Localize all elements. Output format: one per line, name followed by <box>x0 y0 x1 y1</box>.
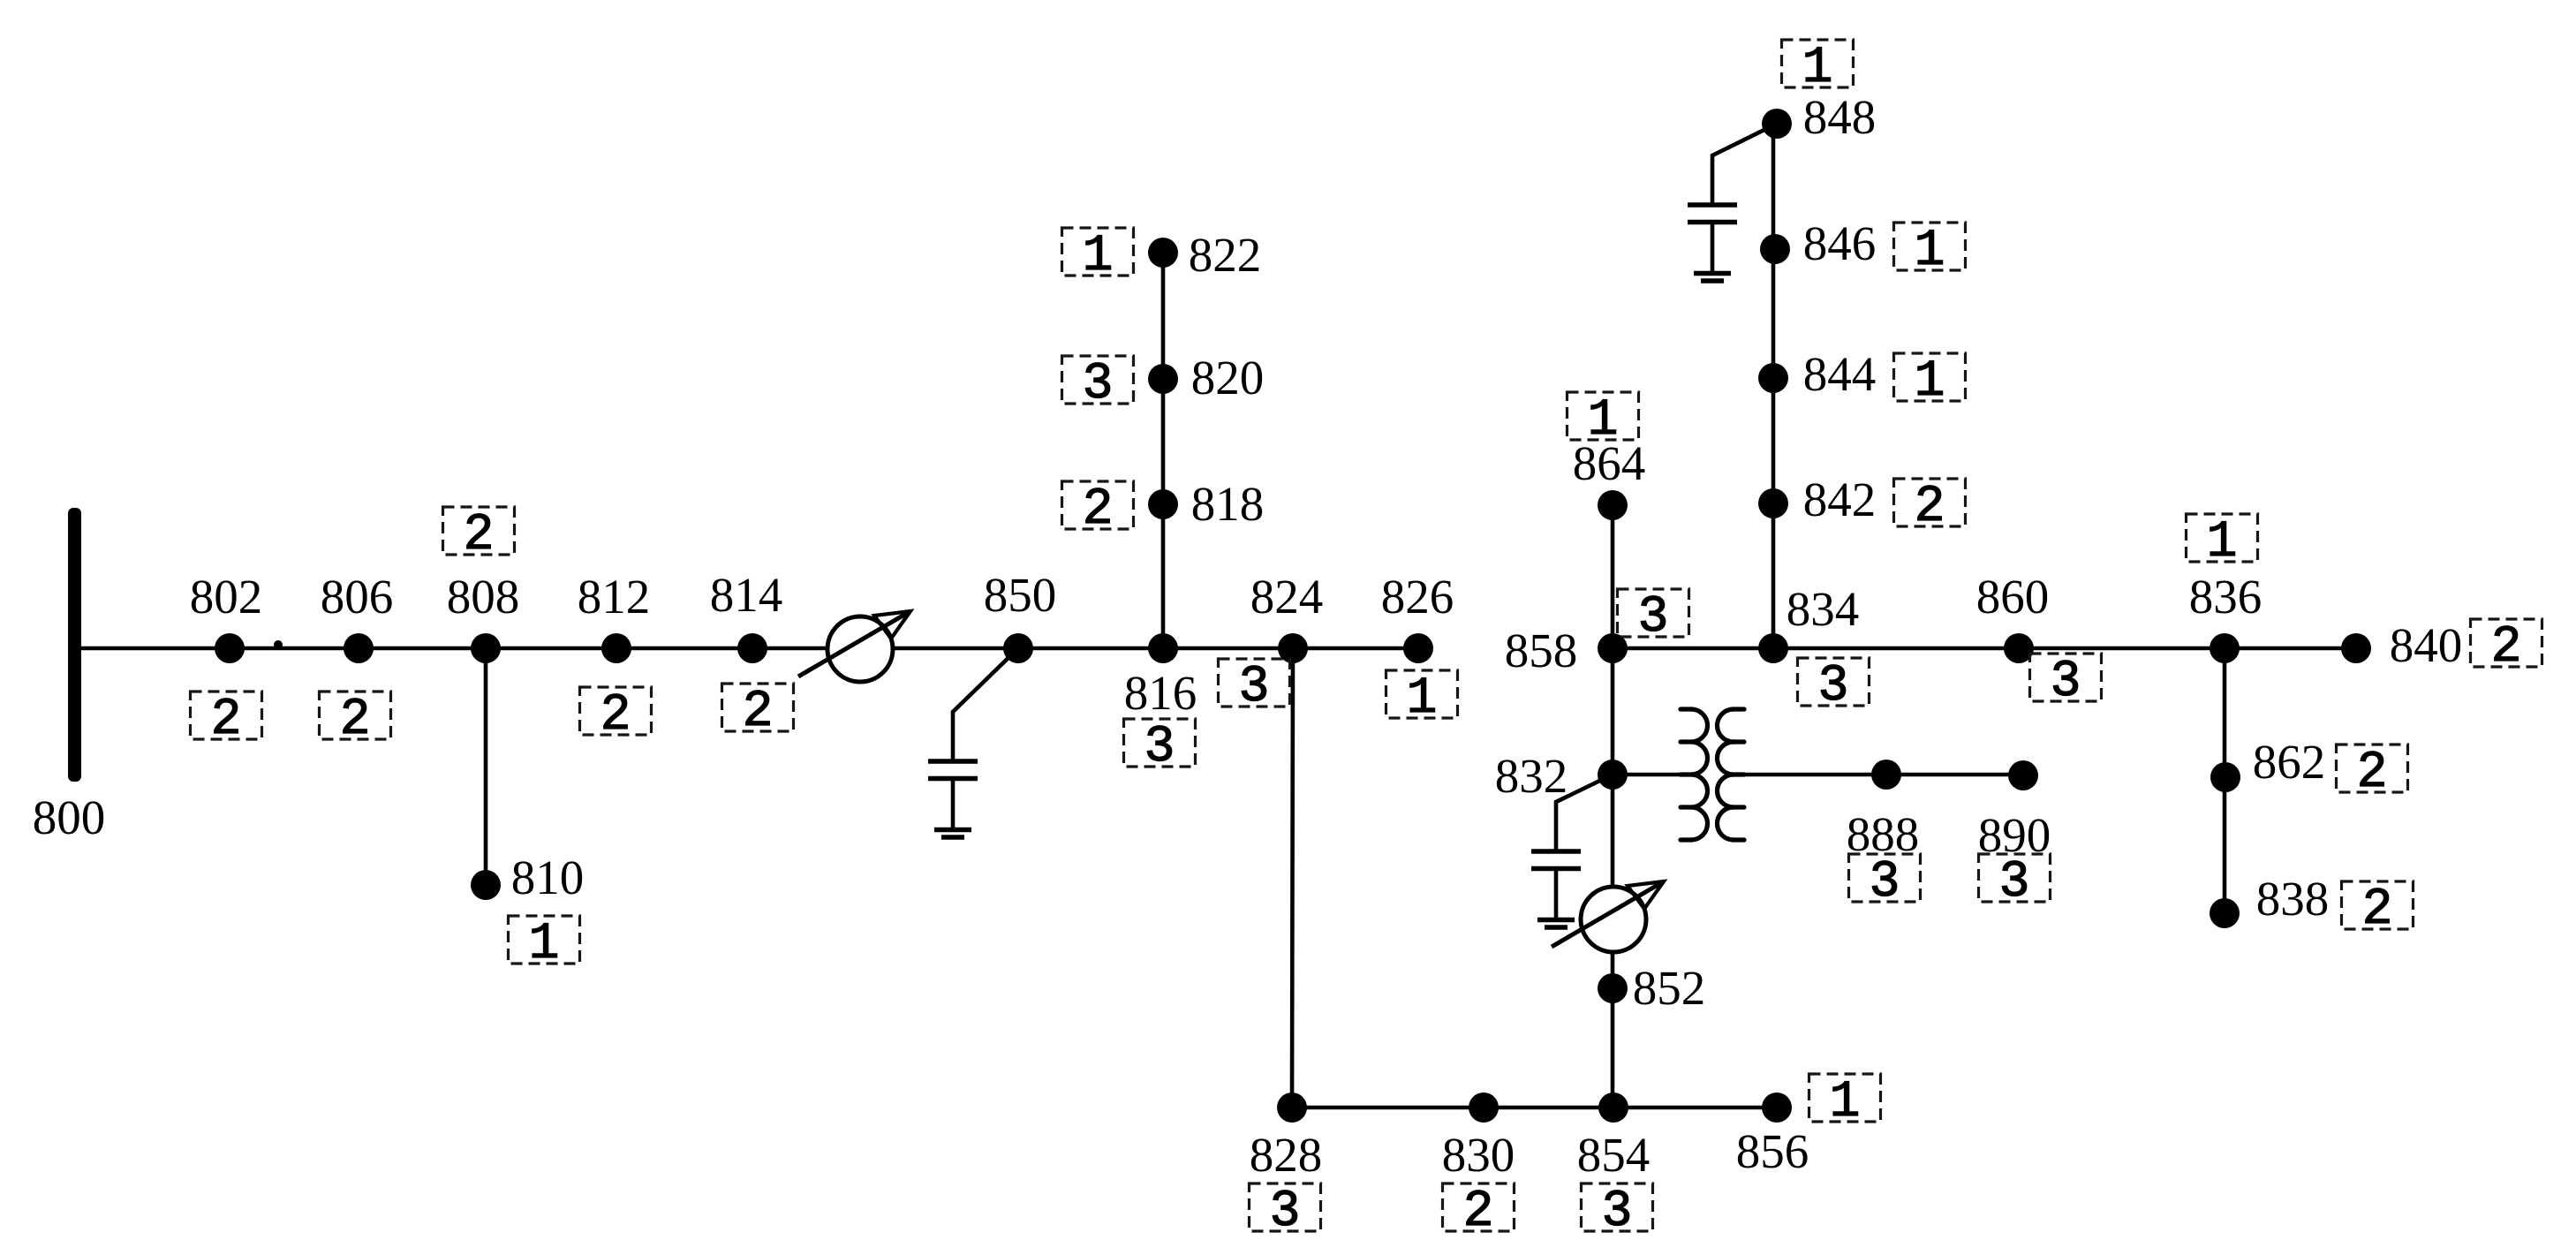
node 864 <box>1598 490 1628 520</box>
svg-text:1: 1 <box>1915 223 1945 280</box>
svg-text:1: 1 <box>1083 228 1114 285</box>
wire 808-810 <box>484 648 488 885</box>
node 862 <box>2210 762 2240 792</box>
svg-text:810: 810 <box>511 851 585 904</box>
transformer XFM-1 primary winding <box>1681 709 1708 840</box>
wire 854-852-832-858-864 <box>1611 505 1615 1108</box>
wire 834-842-844-846-848 <box>1771 124 1776 648</box>
node 852 <box>1598 973 1628 1003</box>
svg-text:2: 2 <box>743 684 774 741</box>
node 858 <box>1598 633 1628 663</box>
svg-text:850: 850 <box>984 568 1057 622</box>
phase label box 3 (below 854) <box>1582 1183 1653 1241</box>
voltage regulator REG2 (852-832) arrow <box>1552 881 1664 947</box>
phase label box 1 (above 864) <box>1568 392 1639 450</box>
node 846 <box>1760 234 1790 264</box>
phase label box 2 (left of 818) <box>1062 481 1134 539</box>
wire C848 plate to ground <box>1711 223 1715 274</box>
phase label box 2 (below 812) <box>580 687 652 745</box>
wire 832 to transformer primary <box>1613 773 1691 777</box>
svg-text:862: 862 <box>2253 735 2326 789</box>
node 854 <box>1598 1092 1628 1123</box>
svg-text:816: 816 <box>1124 666 1197 720</box>
svg-text:2: 2 <box>1915 479 1945 536</box>
svg-text:840: 840 <box>2390 618 2463 672</box>
node 850 <box>1003 633 1033 663</box>
node 838 <box>2210 898 2240 928</box>
voltage regulator REG1 (814-850) arrow <box>798 611 910 677</box>
node 840 <box>2341 633 2371 663</box>
node 818 <box>1148 489 1178 519</box>
phase label box 2 (right of 840) <box>2471 619 2542 677</box>
svg-text:2: 2 <box>2362 881 2393 939</box>
wire C832 plate to ground <box>1554 869 1559 920</box>
node 890 <box>2008 760 2038 790</box>
svg-text:1: 1 <box>1407 670 1438 728</box>
node 888 <box>1871 760 1901 790</box>
node 824 <box>1278 633 1308 663</box>
phase label box 2 (below 806) <box>320 692 391 749</box>
svg-text:854: 854 <box>1577 1128 1651 1182</box>
node 814 <box>737 633 767 663</box>
capacitor C832 lead wire <box>1556 775 1613 851</box>
wire 816-818-820-822 <box>1161 253 1166 648</box>
node 856 <box>1762 1092 1792 1123</box>
phase label box 3 (right of 858) <box>1618 589 1689 646</box>
wire 858-834-860-836-840 <box>1613 646 2356 651</box>
capacitor C850 lead wire <box>953 648 1018 761</box>
svg-text:806: 806 <box>321 570 394 624</box>
node 844 <box>1758 363 1788 393</box>
svg-text:3: 3 <box>2051 654 2081 711</box>
svg-text:830: 830 <box>1442 1128 1515 1182</box>
phase label box 3 (below 816) <box>1124 719 1196 776</box>
phase label box 3 (left of 820) <box>1062 356 1134 413</box>
capacitor C850 plates <box>928 761 978 779</box>
node 812 <box>601 633 631 663</box>
node 826 <box>1403 633 1433 663</box>
voltage regulator REG2 (852-832) circle <box>1581 887 1646 952</box>
svg-text:818: 818 <box>1191 477 1265 531</box>
phase label box 2 (above 808) <box>443 507 515 564</box>
svg-text:828: 828 <box>1250 1128 1323 1182</box>
wire 828-830-854-856 <box>1292 1106 1777 1110</box>
phase label box 2 (below 830) <box>1443 1183 1515 1241</box>
wire transformer secondary to 888-890 <box>1734 773 2023 777</box>
node 810 <box>471 870 501 900</box>
svg-text:814: 814 <box>710 568 783 622</box>
node 820 <box>1148 364 1178 394</box>
svg-text:2: 2 <box>340 692 371 749</box>
svg-text:824: 824 <box>1250 570 1324 624</box>
svg-text:808: 808 <box>447 570 520 624</box>
svg-text:856: 856 <box>1736 1124 1809 1178</box>
svg-text:852: 852 <box>1633 961 1706 1015</box>
svg-text:3: 3 <box>1999 854 2030 911</box>
svg-text:812: 812 <box>578 570 651 624</box>
svg-text:836: 836 <box>2189 570 2262 624</box>
svg-text:802: 802 <box>190 570 263 624</box>
ground below C848 <box>1694 274 1731 282</box>
svg-text:1: 1 <box>1802 40 1833 97</box>
svg-text:2: 2 <box>601 687 631 745</box>
svg-text:860: 860 <box>1976 570 2050 624</box>
voltage regulator REG1 (814-850) circle <box>827 616 893 682</box>
svg-text:1: 1 <box>1588 392 1619 450</box>
transformer XFM-1 secondary winding <box>1718 709 1745 840</box>
capacitor C848 plates <box>1688 205 1737 223</box>
svg-text:3: 3 <box>1083 356 1114 413</box>
phase label box 3 (below 888) <box>1849 854 1921 911</box>
node 860 <box>2004 633 2034 663</box>
svg-text:2: 2 <box>211 692 242 749</box>
node 804 (small junction dot) <box>274 640 283 649</box>
node 828 <box>1277 1092 1307 1123</box>
svg-text:822: 822 <box>1189 228 1262 282</box>
phase label box 1 (right of 844) <box>1894 353 1966 411</box>
svg-text:838: 838 <box>2256 872 2330 926</box>
svg-text:846: 846 <box>1803 216 1877 270</box>
svg-text:3: 3 <box>1870 854 1900 911</box>
svg-text:2: 2 <box>2491 619 2522 677</box>
phase label box 2 (below 814) <box>722 684 794 741</box>
svg-text:3: 3 <box>1239 659 1270 716</box>
node 834 <box>1758 633 1788 663</box>
svg-text:2: 2 <box>464 507 495 564</box>
svg-text:832: 832 <box>1495 749 1568 803</box>
svg-text:844: 844 <box>1803 347 1877 401</box>
phase label box 1 (above 848) <box>1782 40 1854 97</box>
substation bus 800 <box>68 508 81 782</box>
capacitor C848 lead wire <box>1712 124 1777 205</box>
wire main feeder 800-802-806-808-812-814-850-816-824-826 <box>74 646 1418 651</box>
phase label box 1 (right of 856) <box>1809 1074 1881 1131</box>
svg-text:3: 3 <box>1638 589 1669 646</box>
node 842 <box>1758 488 1788 518</box>
svg-text:848: 848 <box>1803 90 1877 144</box>
phase label box 3 (below 890) <box>1979 854 2051 911</box>
svg-text:2: 2 <box>1083 481 1114 539</box>
phase label box 3 (below 834) <box>1798 658 1870 715</box>
svg-text:800: 800 <box>33 790 106 844</box>
capacitor C832 plates <box>1531 851 1581 869</box>
svg-text:1: 1 <box>1830 1074 1861 1131</box>
svg-text:2: 2 <box>2357 745 2388 802</box>
node 806 <box>344 633 374 663</box>
node 836 <box>2210 633 2240 663</box>
phase label box 3 (below 828) <box>1250 1183 1321 1241</box>
ground below C832 <box>1537 920 1575 928</box>
svg-text:842: 842 <box>1803 473 1877 526</box>
svg-text:2: 2 <box>1463 1183 1494 1241</box>
phase label box 3 (below 860) <box>2030 654 2102 711</box>
phase label box 2 (below 802) <box>191 692 262 749</box>
svg-text:3: 3 <box>1270 1183 1301 1241</box>
wire 836-862-838 <box>2223 648 2227 913</box>
phase label box 2 (right of 842) <box>1894 479 1966 536</box>
svg-text:3: 3 <box>1818 658 1849 715</box>
node 816 <box>1148 633 1178 663</box>
svg-text:820: 820 <box>1191 351 1265 404</box>
phase label box 1 (below 826) <box>1386 670 1458 728</box>
phase label box 2 (right of 838) <box>2342 881 2414 939</box>
svg-text:834: 834 <box>1787 582 1860 636</box>
wire 824-828 <box>1292 648 1293 1108</box>
svg-text:858: 858 <box>1505 624 1578 677</box>
ground below C850 <box>934 830 971 838</box>
svg-text:1: 1 <box>2207 514 2238 571</box>
node 830 <box>1469 1092 1499 1123</box>
phase label box 1 (above 836) <box>2187 514 2258 571</box>
phase label box 1 (below 810) <box>509 916 580 973</box>
phase label box 3 (below 824) <box>1219 659 1290 716</box>
node 832 <box>1598 760 1628 790</box>
node 808 <box>471 633 501 663</box>
phase label box 2 (right of 862) <box>2337 745 2408 802</box>
svg-text:826: 826 <box>1381 570 1454 624</box>
svg-text:1: 1 <box>1915 353 1945 411</box>
node 802 <box>215 633 245 663</box>
wire C850 plate to ground <box>951 779 956 830</box>
svg-text:3: 3 <box>1602 1183 1633 1241</box>
svg-text:1: 1 <box>529 916 560 973</box>
node 822 <box>1148 238 1178 268</box>
node 848 <box>1762 109 1792 139</box>
svg-text:3: 3 <box>1144 719 1175 776</box>
phase label box 1 (right of 846) <box>1894 223 1966 280</box>
phase label box 1 (left of 822) <box>1062 228 1134 285</box>
